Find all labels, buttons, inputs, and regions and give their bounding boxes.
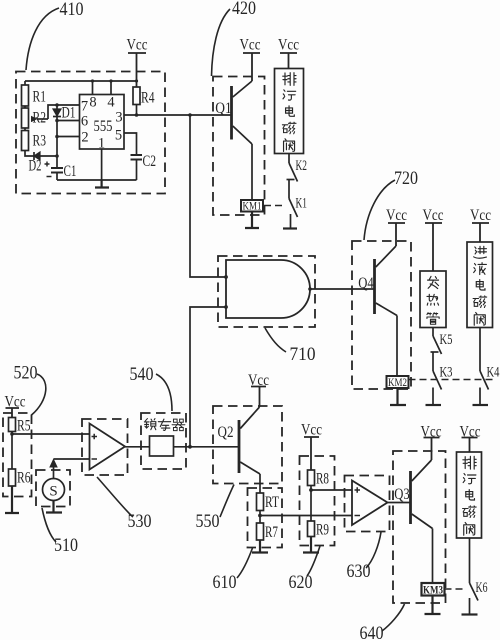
wire: op-amp2 out to Q3 base [388, 502, 411, 504]
sensor S [43, 479, 65, 501]
resistor R3 [22, 128, 47, 151]
mech link KM1-K1 (dashed) [264, 205, 285, 207]
svg-text:Q3: Q3 [394, 486, 410, 503]
transistor Q1 [215, 81, 252, 144]
svg-text:6: 6 [81, 114, 88, 130]
node: pin6 junction [55, 119, 59, 123]
svg-text:D2: D2 [29, 158, 42, 175]
svg-text:2: 2 [81, 130, 88, 146]
capacitor C2 [124, 133, 156, 180]
wire: pin6 pin2 [57, 121, 80, 137]
wire: valve2 to K6 [469, 538, 471, 583]
svg-text:410: 410 [60, 0, 84, 20]
node: R4 foot junction [135, 113, 139, 117]
resistor R9 [308, 521, 330, 539]
dashed box 420 [213, 77, 265, 216]
ground below KM1 [245, 212, 259, 229]
Vcc rail over Q3 [421, 424, 442, 461]
label 710 [265, 328, 316, 365]
wire: gate input B from latch bus [190, 307, 226, 447]
svg-text:630: 630 [347, 561, 371, 582]
wire: R8/R9 junction to op-amp2 + input [311, 489, 352, 491]
ground below K6 [462, 613, 478, 615]
svg-text:Vcc: Vcc [127, 37, 148, 54]
svg-text:R6: R6 [17, 470, 31, 487]
node: gate output [308, 287, 312, 291]
diode D2 [25, 151, 57, 175]
svg-text:540: 540 [130, 364, 154, 385]
switch K4 [480, 365, 500, 405]
resistor R5 [9, 418, 31, 435]
svg-text:S: S [49, 484, 57, 500]
ground below K1 [283, 227, 297, 229]
inlet solenoid valve box (进液电磁阀) [467, 242, 493, 328]
svg-text:R5: R5 [17, 418, 31, 435]
wire: inlet valve to K4 [479, 328, 481, 372]
svg-text:K5: K5 [440, 332, 453, 348]
wire: op-amp out to latch [125, 446, 150, 448]
Vcc rail over R8 [301, 422, 322, 471]
ground (555 pin1) [95, 180, 109, 188]
svg-text:R1: R1 [33, 89, 47, 106]
svg-text:R2: R2 [33, 110, 47, 127]
wire: top supply rail inside 410 [25, 80, 137, 82]
Vcc rail over Q1 [240, 37, 261, 82]
svg-text:530: 530 [128, 511, 152, 532]
svg-text:R4: R4 [141, 90, 155, 107]
svg-text:510: 510 [54, 535, 78, 556]
svg-text:610: 610 [213, 572, 237, 593]
op-amp U4 [352, 481, 388, 526]
svg-text:K1: K1 [296, 196, 308, 212]
svg-text:R7: R7 [265, 524, 278, 541]
wire: R5-R6 [11, 432, 13, 470]
Vcc rail over inlet valve [470, 207, 491, 242]
wire: R8-R9 [310, 486, 312, 522]
label 520 [14, 363, 46, 416]
wire: Q3 emitter to KM3 [432, 529, 434, 584]
wire: bus from 555 output down to gate input A [190, 115, 226, 277]
switch K3 [433, 352, 453, 405]
capacitor C1 (electrolytic) [45, 162, 77, 181]
wire: pin1 [101, 149, 103, 180]
resistor R2 (adjustable) [22, 105, 80, 128]
heater tube box (发热管) [420, 271, 446, 328]
node: C1 top junction [55, 154, 59, 158]
svg-text:555: 555 [94, 118, 113, 135]
latch symbol box [150, 436, 174, 456]
switch K5 [431, 332, 453, 354]
op-amp U3 [90, 424, 126, 470]
resistor R7 [257, 523, 279, 541]
wire: RT/R7 junction to op-amp2 - input [260, 515, 352, 517]
mech link KM3-K6 (dashed) [445, 588, 466, 590]
svg-text:D1: D1 [62, 105, 76, 122]
svg-text:8: 8 [89, 95, 96, 111]
dashed box 530 [82, 419, 128, 475]
drain solenoid valve box (排污电磁阀) [275, 69, 304, 154]
wire: latch to Q2 base [174, 446, 240, 448]
dashed box 630 [345, 476, 390, 532]
relay coil KM1 [241, 199, 263, 213]
dashed box 550 [213, 406, 282, 484]
transistor Q2 [218, 407, 261, 474]
svg-text:K6: K6 [476, 580, 488, 596]
svg-text:720: 720 [394, 168, 418, 189]
ground below S [46, 501, 62, 513]
node: rail junctions [91, 79, 94, 82]
ground below R6 [5, 486, 19, 513]
wire: pin8 pin4 to rail [93, 81, 112, 95]
dashed box 520 [3, 413, 32, 497]
label 720 [364, 168, 418, 240]
dashed box 720 [352, 241, 411, 389]
svg-text:640: 640 [360, 623, 384, 640]
Vcc rail over Q4 [386, 207, 407, 246]
switch K6 [470, 580, 488, 615]
node: gate input B [224, 305, 228, 309]
dashed box 610 [248, 488, 283, 548]
node: R5/R6 junction [10, 432, 14, 436]
node: D1 top junction [55, 103, 59, 107]
svg-text:550: 550 [196, 511, 220, 532]
svg-text:K3: K3 [440, 365, 453, 381]
svg-text:Vcc: Vcc [278, 37, 299, 54]
dashed box 410 [16, 72, 165, 194]
wire: sensor arrow to op-amp - input [50, 459, 90, 479]
svg-text:Vcc: Vcc [423, 207, 444, 224]
resistor R6 [9, 469, 31, 487]
svg-text:Q1: Q1 [215, 100, 232, 117]
wire: bottom rail inside 410 [57, 179, 137, 181]
svg-text:620: 620 [289, 572, 313, 593]
label 420 [212, 0, 257, 76]
Vcc rail over drain valve 1 [278, 37, 299, 69]
svg-text:KM3: KM3 [423, 583, 443, 597]
label 550 [196, 485, 235, 533]
ground below R9 [303, 537, 319, 553]
Vcc rail over Q2 [248, 372, 269, 407]
svg-text:C2: C2 [143, 153, 157, 170]
label 630 [347, 532, 382, 582]
svg-text:K2: K2 [296, 158, 308, 174]
switch K1 [289, 196, 307, 229]
latch text 锁存器 [144, 419, 185, 431]
svg-text:3: 3 [115, 110, 122, 126]
svg-text:710: 710 [290, 344, 316, 365]
wire: Q4 emitter to KM2 [396, 316, 398, 377]
label 510 [42, 508, 78, 556]
op 555 IC U1 [80, 95, 125, 152]
wire: heater to K5 [432, 328, 434, 337]
Vcc rail over drain valve 2 [460, 424, 481, 453]
dashed box 540 [141, 413, 186, 469]
svg-text:Vcc: Vcc [240, 37, 261, 54]
node: RT/R7 junction [258, 514, 262, 518]
node: pin2 junction [55, 135, 59, 139]
ground below R7 [252, 540, 268, 553]
svg-text:420: 420 [232, 0, 256, 19]
wire: gate output to Q4 base [310, 288, 375, 290]
relay coil KM3 [422, 583, 445, 597]
wire: divider to op-amp + input [12, 433, 90, 435]
label 410 [26, 0, 84, 70]
svg-text:RT: RT [265, 494, 279, 511]
wire: RT-R7 [259, 511, 261, 524]
svg-text:K4: K4 [487, 365, 500, 381]
svg-text:Q2: Q2 [218, 424, 234, 441]
wire: Q2 emitter to RT [259, 474, 261, 493]
resistor R4 [133, 87, 155, 115]
Vcc rail over heater [423, 207, 444, 271]
node: R8 junction [309, 488, 313, 492]
resistor R8 [308, 470, 330, 488]
wire: valve to K2 [288, 154, 290, 164]
ground below KM3 [425, 596, 441, 615]
ground below KM2 [390, 388, 406, 405]
node: gate input A [224, 275, 228, 279]
svg-text:5: 5 [115, 128, 122, 144]
drain solenoid valve 2 box (排污电磁阀) [457, 452, 482, 538]
label 610 [213, 548, 253, 593]
svg-text:Vcc: Vcc [470, 207, 491, 224]
wire: Q1 emitter to KM1 [251, 144, 253, 200]
label 540 [130, 364, 173, 411]
wire: 555 pin3 output to Q1 base [124, 114, 232, 116]
svg-text:Vcc: Vcc [386, 207, 407, 224]
svg-text:Q4: Q4 [358, 275, 374, 292]
transistor Q4 [358, 246, 397, 316]
svg-text:C1: C1 [64, 163, 77, 180]
node: latch output bus junction [188, 445, 192, 449]
Vcc rail over R5 [5, 394, 26, 418]
dashed box 510 [36, 470, 70, 507]
switch K2 [287, 158, 308, 199]
dashed box 640 [393, 451, 446, 603]
svg-text:R3: R3 [33, 133, 47, 150]
AND gate U2 [226, 260, 310, 318]
svg-text:7: 7 [81, 99, 88, 115]
transistor Q3 [394, 460, 432, 529]
resistor R1 [22, 81, 47, 106]
ground below K3 [426, 404, 442, 406]
dashed box 710 [218, 256, 315, 327]
ground below K4 [473, 404, 489, 406]
diode D1 [53, 105, 76, 169]
relay coil KM2 [387, 375, 409, 389]
node: output bus junction [188, 113, 192, 117]
svg-text:KM2: KM2 [388, 375, 407, 389]
svg-text:4: 4 [107, 95, 115, 111]
svg-text:R8: R8 [316, 471, 329, 488]
dashed box 620 [300, 456, 335, 546]
label 620 [289, 546, 321, 593]
svg-text:KM1: KM1 [243, 199, 262, 213]
label 640 [360, 604, 405, 640]
thermistor RT [257, 493, 280, 511]
svg-text:R9: R9 [316, 522, 329, 539]
label 530 [97, 477, 152, 532]
svg-text:520: 520 [14, 363, 38, 384]
Vcc rail over 555 [127, 37, 148, 88]
mech link KM2-K3-K4 (dashed) [409, 379, 497, 381]
svg-text:Vcc: Vcc [301, 422, 322, 439]
